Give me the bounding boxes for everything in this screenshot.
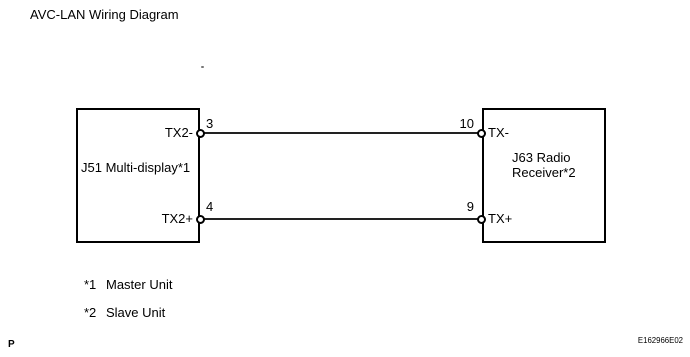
wire TX2+ to TX+ (bottom) — [203, 218, 479, 220]
pin label TX2+ — [97, 211, 193, 226]
page letter P — [8, 337, 15, 352]
terminal circle pin 4 — [196, 215, 205, 224]
terminal circle pin 3 — [196, 129, 205, 138]
pin label TX2- — [97, 125, 193, 140]
box J51 Multi-display (master unit) — [76, 108, 200, 243]
pin label TX- — [488, 125, 509, 140]
box J63 Radio Receiver (slave unit) — [482, 108, 606, 243]
terminal circle pin 10 — [477, 129, 486, 138]
artifact dot — [201, 66, 204, 68]
title: AVC-LAN Wiring Diagram — [30, 7, 179, 22]
terminal circle pin 9 — [477, 215, 486, 224]
pin number 4 — [206, 199, 213, 214]
note *1 Master Unit — [84, 277, 96, 292]
label J51 Multi-display*1 — [81, 160, 190, 175]
pin number 10 — [446, 116, 474, 131]
pin number 3 — [206, 116, 213, 131]
wire TX2- to TX- (top) — [203, 132, 479, 134]
note *2 Slave Unit — [84, 305, 96, 320]
figure id E162966E02 — [540, 336, 683, 346]
pin label TX+ — [488, 211, 512, 226]
label J63 Radio Receiver*2 — [512, 150, 576, 180]
pin number 9 — [446, 199, 474, 214]
